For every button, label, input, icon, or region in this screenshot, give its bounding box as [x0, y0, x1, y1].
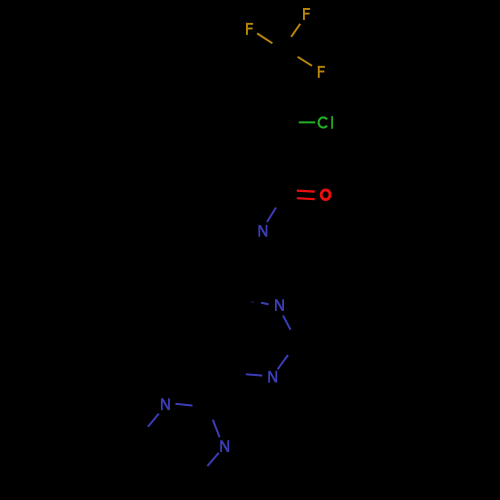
atom label N2 ring1 top — [276, 299, 283, 311]
atom label F2 — [246, 23, 253, 35]
atom label Cl : letter C arc — [319, 117, 327, 127]
wire C-Cl (green half-bond) — [299, 121, 315, 123]
node faint inner double-bond remnant near N2 — [252, 301, 255, 304]
atom label N3 ring1 bottom — [269, 371, 276, 383]
wire C-F1 (orange half-bond) — [291, 24, 300, 37]
wire C2'-N5 (blue half-bond) — [213, 420, 220, 438]
wire N4-C2' dash (blue half-bond) — [175, 404, 192, 406]
atom label N5 ring2 right — [221, 440, 228, 452]
atom label F1 — [303, 8, 310, 20]
atom label O (bold ring) — [321, 190, 330, 200]
wire N3-C2 (blue half-bond) — [278, 355, 288, 369]
atom label Cl : letter l bar — [331, 116, 333, 129]
atom label N4 ring2 left — [162, 398, 169, 410]
wire N5-C5' (blue half-bond) — [207, 453, 218, 466]
wire N2-C2 (blue half-bond) — [283, 316, 291, 330]
wire C6-N2 dash (blue half-bond) — [261, 303, 269, 305]
wire N4-C6' (blue half-bond) — [148, 414, 159, 427]
wire C-F3 (orange half-bond) — [298, 57, 312, 66]
atom label F3 — [318, 66, 325, 78]
wire C4-N3 dash (blue half-bond) — [246, 374, 262, 375]
wire N1-C(=O) (blue half-bond) — [267, 208, 276, 223]
atom label N1 amide — [259, 225, 266, 237]
wire C=O lower line (red half-bond) — [297, 198, 315, 199]
wire C=O upper line (red half-bond) — [297, 191, 315, 192]
wire C-F2 (orange half-bond) — [257, 33, 272, 43]
